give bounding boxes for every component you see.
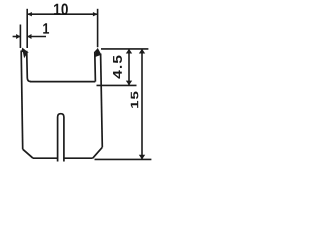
bottom tube right wall (63, 117, 65, 162)
arrow 1 right (outside, pointing left) (27, 34, 31, 39)
ext line 4.5 bottom (97, 84, 137, 86)
dim line 1 left tail (13, 36, 21, 38)
right outer wall (101, 54, 103, 148)
left bottom chamfer (23, 149, 33, 158)
dim text 4.5 (rotated) (113, 55, 122, 78)
ext line 1 left (19, 25, 21, 49)
dim line 15 (141, 49, 143, 159)
top ext line for 4.5/15 (101, 48, 148, 50)
bottom tube arch (58, 114, 64, 117)
arrow 10 left (27, 12, 32, 16)
left leg inner wall down to floor with rounded corner (27, 51, 31, 82)
ext line 10 right (97, 9, 99, 47)
dim line 4.5 (128, 49, 130, 85)
slot floor (30, 81, 95, 83)
bottom edge right part (64, 157, 93, 159)
arrow 4.5 down (126, 81, 132, 86)
right leg tip (95, 49, 101, 57)
arrow 15 down (139, 155, 145, 160)
left leg outer wall (21, 51, 23, 150)
profile outline left leg tip (22, 49, 28, 53)
dim line 10 (27, 13, 97, 15)
left leg tip inner barb (23, 51, 27, 58)
ext line 10 left (26, 9, 28, 48)
arrow 4.5 up (126, 49, 132, 54)
arrow 10 right (93, 12, 98, 16)
ext line 15 bottom (95, 158, 152, 160)
dim text 10 (54, 4, 68, 15)
right bottom chamfer (93, 147, 103, 158)
arrow 1 left (outside, pointing right) (16, 34, 20, 39)
dim text 15 (rotated) (131, 92, 139, 108)
dim line 1 right tail (27, 36, 46, 38)
dimension lines (13, 9, 152, 160)
dim text 1 (43, 23, 49, 33)
right leg inner wall (95, 49, 98, 81)
bottom tube left wall (57, 117, 59, 162)
arrow 15 up (139, 49, 145, 54)
bottom edge left part (33, 157, 58, 159)
